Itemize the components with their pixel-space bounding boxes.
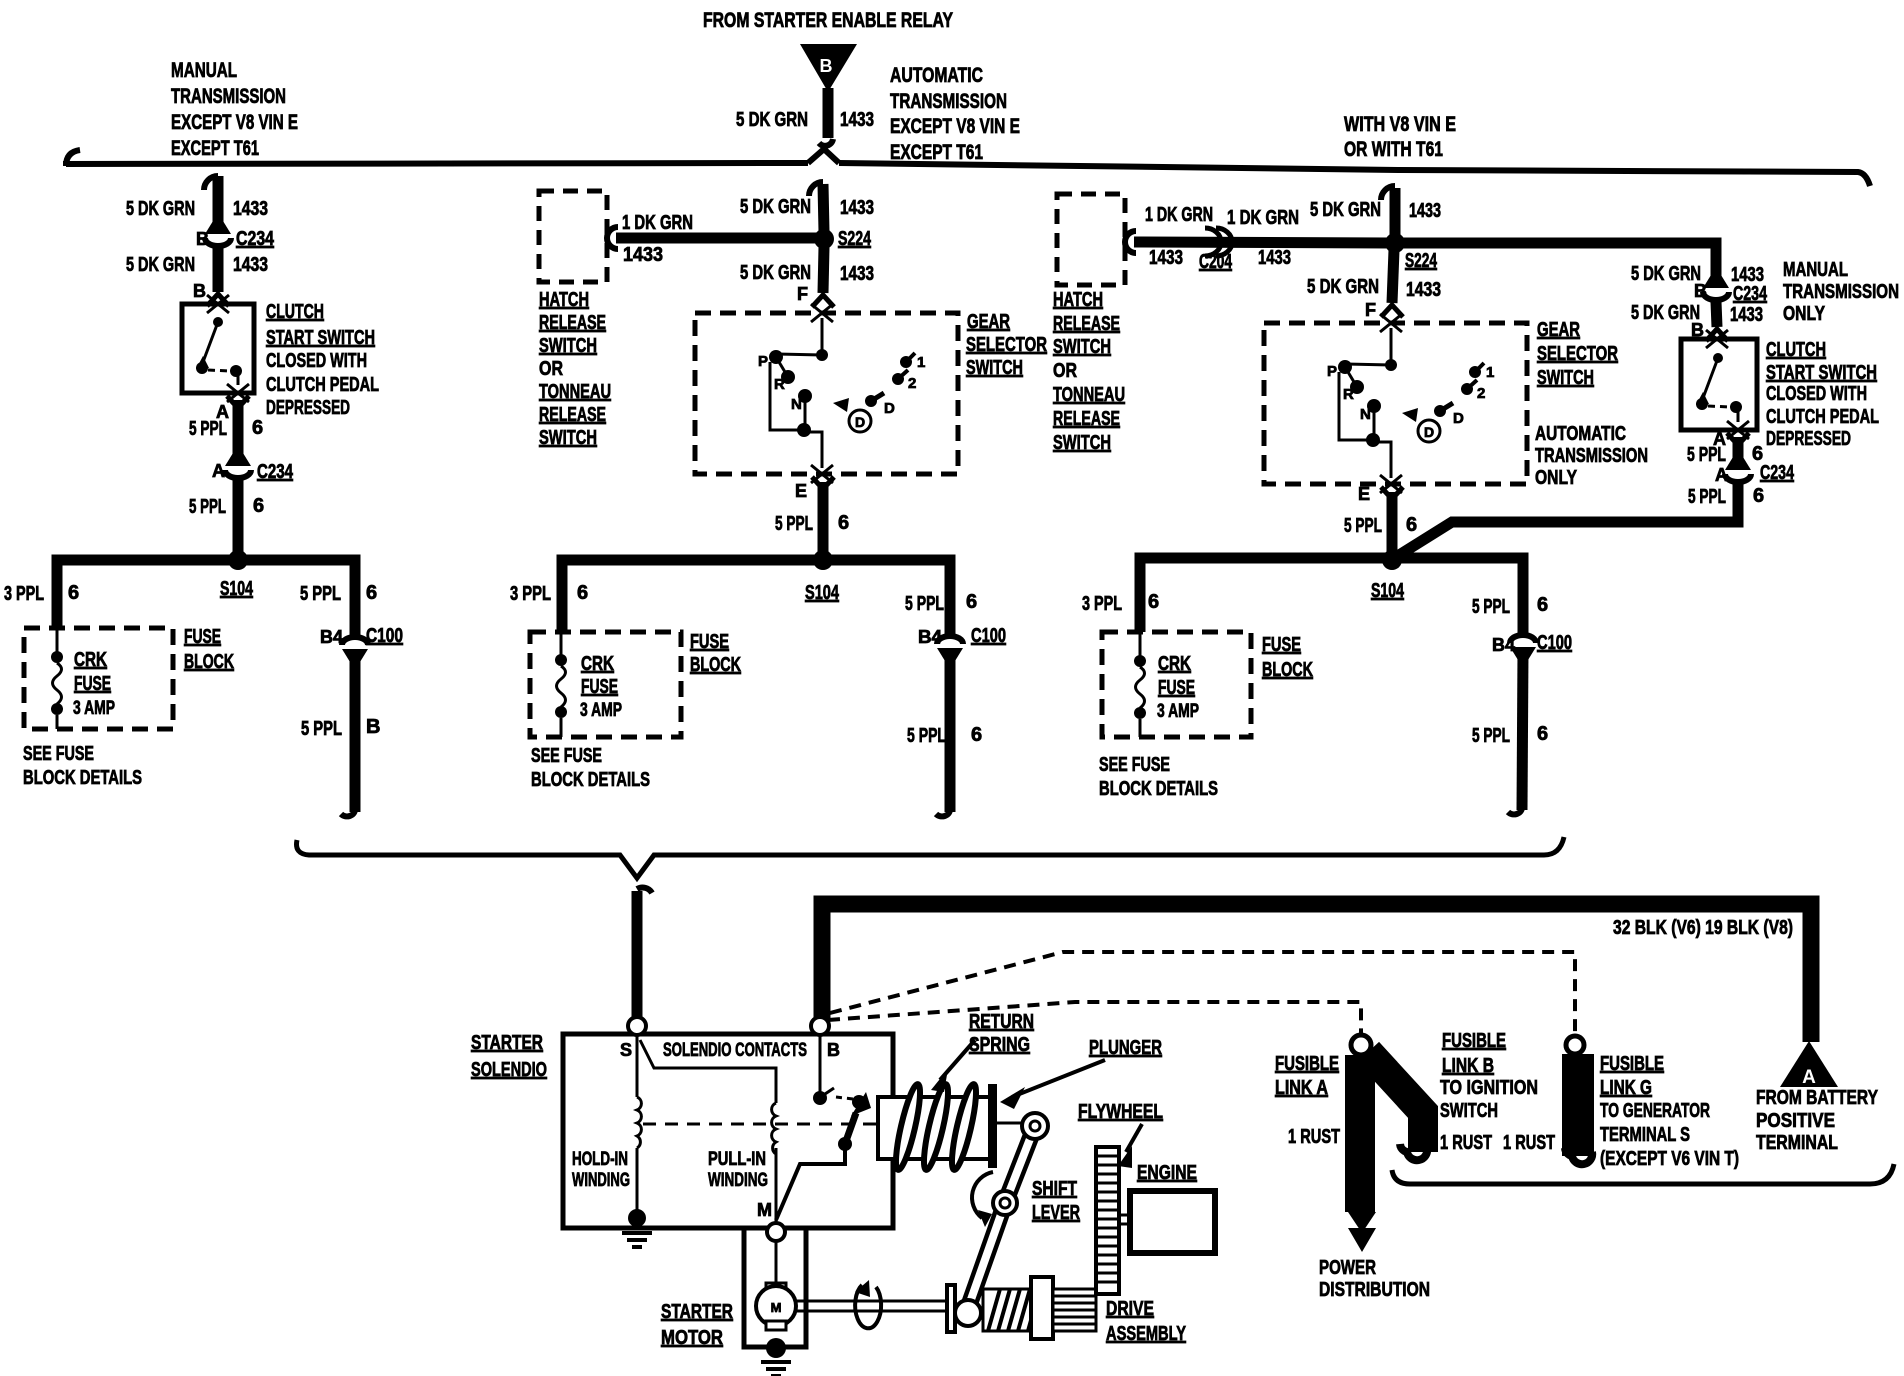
svg-text:5 PPL: 5 PPL — [189, 496, 226, 518]
svg-text:SELECTOR: SELECTOR — [1537, 343, 1618, 365]
svg-text:1433: 1433 — [840, 263, 874, 285]
label drive assembly — [1106, 1298, 1186, 1345]
svg-text:DRIVE: DRIVE — [1106, 1298, 1154, 1320]
label pull-in winding — [708, 1149, 768, 1191]
svg-text:CRK: CRK — [581, 653, 614, 675]
svg-text:FUSIBLE: FUSIBLE — [1600, 1053, 1664, 1075]
svg-text:EXCEPT V8 VIN E: EXCEPT V8 VIN E — [171, 111, 298, 134]
svg-text:D: D — [884, 400, 895, 417]
svg-text:SWITCH: SWITCH — [1440, 1100, 1498, 1122]
dashed lead from B terminal to fusible link G — [830, 952, 1575, 1036]
svg-text:5 PPL: 5 PPL — [300, 583, 341, 605]
rotation arrow at shaft — [855, 1280, 881, 1328]
svg-text:LINK B: LINK B — [1442, 1055, 1494, 1077]
svg-text:D: D — [855, 414, 865, 430]
wire from hatch release switch to splice S224 (branch 3) — [1125, 231, 1390, 253]
svg-text:1433: 1433 — [1406, 279, 1441, 301]
wire label 5 PPL 6 — [907, 724, 982, 747]
svg-text:AUTOMATIC: AUTOMATIC — [1535, 423, 1626, 445]
svg-text:TO GENERATOR: TO GENERATOR — [1600, 1100, 1710, 1122]
svg-text:CLUTCH: CLUTCH — [266, 301, 324, 323]
svg-text:MANUAL: MANUAL — [171, 59, 237, 82]
connector C204 — [1199, 228, 1233, 273]
svg-text:STARTER: STARTER — [471, 1032, 543, 1054]
splice S104 (branch 3) — [1371, 550, 1405, 602]
svg-text:S: S — [620, 1040, 632, 1060]
svg-text:E: E — [1358, 484, 1370, 504]
label flywheel with arrow — [1078, 1101, 1163, 1168]
bottom right brace — [1392, 1164, 1894, 1184]
hatch release switch box (branch 2, dashed) — [539, 191, 607, 282]
splice S104 (branch 1) — [220, 550, 254, 600]
wire label 5 PPL 6 — [775, 512, 849, 535]
svg-text:6: 6 — [577, 582, 588, 604]
splice S224 — [814, 228, 872, 250]
svg-text:M: M — [771, 1300, 782, 1315]
wire from S224 to gear selector switch pin F (branch 3) — [1365, 250, 1403, 320]
starter solenoid box — [563, 1034, 893, 1228]
svg-text:GEAR: GEAR — [967, 311, 1010, 333]
lower gathering brace — [297, 837, 1565, 878]
svg-text:1433: 1433 — [1409, 200, 1441, 222]
svg-text:5 DK GRN: 5 DK GRN — [126, 254, 195, 276]
svg-text:SWITCH: SWITCH — [1537, 367, 1594, 389]
wire label 3 PPL 6 — [4, 582, 79, 605]
wire label 5 DK GRN 1433 — [740, 196, 874, 219]
label gear selector switch (branch 3) — [1537, 319, 1618, 389]
svg-text:F: F — [797, 284, 808, 304]
label see fuse block details — [531, 745, 650, 791]
svg-text:A: A — [1715, 465, 1728, 485]
svg-text:SEE FUSE: SEE FUSE — [531, 745, 602, 767]
svg-text:CRK: CRK — [74, 649, 107, 671]
fuse block 3 (dashed) — [1102, 632, 1251, 737]
svg-text:3 AMP: 3 AMP — [1157, 701, 1199, 722]
wire from bus down to connector C234 (branch 1) — [204, 176, 218, 231]
label fuse block — [184, 626, 234, 673]
svg-text:1433: 1433 — [1149, 247, 1183, 269]
starter motor housing — [744, 1228, 806, 1347]
svg-text:5 PPL: 5 PPL — [775, 513, 813, 535]
svg-text:BLOCK DETAILS: BLOCK DETAILS — [23, 767, 142, 789]
drive assembly clutch (hatched) — [983, 1289, 1033, 1331]
svg-text:FUSE: FUSE — [1158, 677, 1195, 699]
svg-text:A: A — [212, 461, 225, 481]
return spring and plunger body — [878, 1083, 997, 1172]
svg-text:ASSEMBLY: ASSEMBLY — [1106, 1323, 1186, 1345]
bus wire from fuse block to C100 through S104 — [562, 560, 950, 636]
svg-text:6: 6 — [971, 724, 982, 746]
svg-text:FUSE: FUSE — [184, 626, 221, 648]
svg-text:P: P — [758, 353, 768, 370]
svg-text:B4: B4 — [1492, 635, 1515, 655]
wire label 5 PPL 6 (right leg) — [1472, 594, 1548, 618]
wire from switch pin A to connector C234 — [216, 384, 249, 462]
svg-text:SHIFT: SHIFT — [1032, 1178, 1077, 1200]
svg-text:RELEASE: RELEASE — [1053, 408, 1120, 430]
wire label 5 DK GRN 1433 — [126, 254, 268, 276]
shaft end plate — [947, 1285, 955, 1332]
wire from gear selector pin E to splice S104 — [795, 477, 834, 556]
wire from switch pin A to connector C234 (branch 3) — [1713, 421, 1749, 466]
svg-text:C100: C100 — [971, 625, 1006, 647]
wire from lower brace to solenoid S terminal — [637, 888, 652, 1018]
svg-text:1433: 1433 — [1730, 304, 1763, 326]
svg-text:START SWITCH: START SWITCH — [1766, 362, 1877, 384]
svg-text:PULL-IN: PULL-IN — [708, 1149, 766, 1170]
wire label 5 DK GRN 1433 — [1631, 302, 1763, 326]
hold-in winding coil — [637, 1035, 641, 1210]
svg-text:1433: 1433 — [840, 197, 874, 219]
fusible link G symbol — [1565, 1036, 1592, 1164]
wire from C234 to clutch start switch pin B — [1691, 302, 1728, 341]
gear selector switch contacts — [758, 318, 925, 468]
svg-text:FUSIBLE: FUSIBLE — [1442, 1030, 1506, 1052]
label CRK FUSE 3 AMP — [1157, 653, 1199, 722]
svg-text:GEAR: GEAR — [1537, 319, 1580, 341]
svg-text:AUTOMATIC: AUTOMATIC — [890, 64, 983, 87]
svg-text:BLOCK: BLOCK — [184, 651, 234, 673]
svg-text:B: B — [827, 1040, 840, 1060]
off-page connector A (from battery positive terminal) — [1780, 1041, 1838, 1088]
label shift lever — [1032, 1178, 1080, 1224]
svg-text:6: 6 — [252, 417, 263, 439]
svg-text:5 DK GRN: 5 DK GRN — [740, 196, 811, 218]
svg-text:HATCH: HATCH — [539, 289, 589, 311]
svg-text:R: R — [1343, 386, 1354, 403]
battery feed wire from solenoid B terminal to triangle A — [822, 904, 1811, 1042]
connector C100 pin B4 — [320, 625, 403, 662]
CRK fuse 3 amp symbol — [1134, 632, 1146, 737]
svg-text:TRANSMISSION: TRANSMISSION — [890, 90, 1007, 113]
wire label 5 PPL 6 (right leg) — [905, 591, 977, 615]
CRK fuse 3 amp symbol — [555, 632, 567, 737]
drive assembly pinion (splined) — [1053, 1289, 1096, 1331]
svg-text:SEE FUSE: SEE FUSE — [23, 743, 94, 765]
gear selector switch box (branch 3, dashed) — [1264, 314, 1527, 493]
engine block — [1119, 1191, 1215, 1253]
svg-text:ONLY: ONLY — [1783, 303, 1826, 325]
clutch start switch contacts (branch 3) — [1696, 353, 1742, 422]
svg-text:CLOSED WITH: CLOSED WITH — [1766, 383, 1867, 405]
svg-text:CLUTCH PEDAL: CLUTCH PEDAL — [266, 374, 379, 396]
dashed lead from B terminal to fusible link A — [828, 1002, 1361, 1034]
svg-text:1 DK GRN: 1 DK GRN — [622, 212, 693, 234]
svg-text:EXCEPT T61: EXCEPT T61 — [171, 137, 259, 160]
svg-text:OR WITH T61: OR WITH T61 — [1344, 138, 1443, 161]
wire labels 1 DK GRN 1 DK GRN / 1433 1433 — [1145, 204, 1299, 269]
svg-text:ENGINE: ENGINE — [1137, 1162, 1197, 1184]
svg-text:SEE FUSE: SEE FUSE — [1099, 754, 1170, 776]
connector C234 pin A (branch 3) — [1715, 457, 1795, 485]
svg-text:DISTRIBUTION: DISTRIBUTION — [1319, 1279, 1430, 1301]
svg-text:CLUTCH PEDAL: CLUTCH PEDAL — [1766, 406, 1879, 428]
wire label 5 DK GRN 1433 — [736, 109, 874, 131]
svg-text:OR: OR — [539, 358, 563, 380]
svg-text:5 DK GRN: 5 DK GRN — [740, 262, 811, 284]
label fusible link G to generator terminal s (except v6 vin t) — [1600, 1053, 1739, 1170]
wire from connector B down to bus — [819, 88, 833, 146]
svg-text:SELECTOR: SELECTOR — [966, 334, 1047, 356]
svg-text:3 PPL: 3 PPL — [1082, 593, 1122, 615]
svg-text:C204: C204 — [1199, 251, 1233, 273]
label CRK FUSE 3 AMP — [580, 653, 622, 721]
fusible link A symbol — [1348, 1035, 1427, 1252]
CRK fuse 3 amp symbol — [51, 628, 63, 729]
wire label 5 DK GRN 1433 — [1310, 199, 1441, 222]
svg-text:1 DK GRN: 1 DK GRN — [1227, 207, 1299, 229]
svg-text:A: A — [1802, 1067, 1816, 1088]
svg-text:SOLENDIO CONTACTS: SOLENDIO CONTACTS — [663, 1040, 807, 1061]
svg-text:B: B — [196, 229, 209, 249]
svg-text:F: F — [1365, 300, 1376, 320]
svg-text:6: 6 — [1537, 723, 1548, 745]
label clutch start switch closed with clutch pedal depressed — [266, 301, 379, 419]
rotation arrow at shift lever — [972, 1172, 993, 1227]
svg-text:TO IGNITION: TO IGNITION — [1440, 1077, 1538, 1099]
dashed plunger axis — [643, 1123, 876, 1126]
svg-text:TRANSMISSION: TRANSMISSION — [1535, 445, 1648, 467]
svg-text:5 DK GRN: 5 DK GRN — [126, 198, 195, 220]
svg-text:SWITCH: SWITCH — [1053, 336, 1111, 358]
svg-text:1: 1 — [1486, 364, 1494, 381]
svg-text:P: P — [1327, 363, 1337, 380]
wire label 3 PPL 6 — [1082, 591, 1159, 615]
svg-text:RETURN: RETURN — [969, 1011, 1034, 1033]
svg-text:CLUTCH: CLUTCH — [1766, 339, 1826, 361]
connector C234 pin A — [212, 453, 294, 483]
label starter solenoid — [471, 1032, 547, 1081]
svg-text:OR: OR — [1053, 360, 1077, 382]
label with v8 vin e or with t61 — [1344, 113, 1456, 161]
svg-text:RELEASE: RELEASE — [1053, 313, 1120, 335]
solenoid contact from B terminal — [813, 1035, 834, 1105]
svg-text:N: N — [791, 396, 802, 413]
moving contact arm — [776, 1092, 871, 1220]
svg-text:5 PPL: 5 PPL — [905, 593, 944, 615]
svg-text:TERMINAL S: TERMINAL S — [1600, 1124, 1690, 1146]
label power distribution — [1319, 1257, 1430, 1301]
svg-text:1 RUST: 1 RUST — [1503, 1132, 1555, 1154]
svg-text:B4: B4 — [320, 627, 343, 647]
terminal M — [757, 1200, 785, 1241]
top bus brace left segment — [66, 150, 808, 166]
label plunger with arrow — [1000, 1037, 1162, 1109]
wire from C234 down and left to splice S104 (branch 3) — [1396, 484, 1738, 557]
label see fuse block details — [23, 743, 142, 789]
svg-text:BLOCK DETAILS: BLOCK DETAILS — [1099, 778, 1218, 800]
label from battery positive terminal — [1756, 1087, 1879, 1154]
svg-text:RELEASE: RELEASE — [539, 404, 606, 426]
svg-text:BLOCK DETAILS: BLOCK DETAILS — [531, 769, 650, 791]
svg-text:S104: S104 — [1371, 580, 1405, 602]
svg-text:CLOSED WITH: CLOSED WITH — [266, 350, 367, 372]
svg-text:C234: C234 — [1733, 283, 1768, 305]
svg-text:(EXCEPT V6 VIN T): (EXCEPT V6 VIN T) — [1600, 1148, 1739, 1170]
label fuse block — [690, 631, 741, 676]
svg-text:POWER: POWER — [1319, 1257, 1376, 1279]
svg-text:SWITCH: SWITCH — [966, 357, 1023, 379]
svg-text:C234: C234 — [236, 228, 275, 250]
svg-text:C100: C100 — [1537, 632, 1572, 654]
svg-text:EXCEPT T61: EXCEPT T61 — [890, 141, 983, 164]
svg-text:1433: 1433 — [233, 198, 268, 220]
label starter motor — [661, 1301, 733, 1349]
svg-text:6: 6 — [68, 582, 79, 604]
svg-text:1433: 1433 — [233, 254, 268, 276]
wire label 5 PPL 6 — [1687, 443, 1763, 466]
svg-text:B: B — [820, 56, 833, 76]
svg-text:5 DK GRN: 5 DK GRN — [1310, 199, 1381, 221]
svg-text:START SWITCH: START SWITCH — [266, 327, 375, 349]
svg-text:3 AMP: 3 AMP — [73, 698, 115, 719]
svg-text:5 PPL: 5 PPL — [1472, 596, 1510, 618]
svg-text:6: 6 — [838, 512, 849, 534]
label manual transmission only — [1783, 259, 1899, 325]
wire label 3 PPL 6 — [510, 582, 588, 605]
svg-text:TERMINAL: TERMINAL — [1756, 1132, 1838, 1154]
svg-text:TONNEAU: TONNEAU — [1053, 384, 1125, 406]
wire from S224 to gear selector switch pin F — [797, 247, 834, 307]
svg-text:SWITCH: SWITCH — [539, 427, 597, 449]
svg-text:5 PPL: 5 PPL — [907, 725, 946, 747]
gear selector switch contacts (branch 3) — [1327, 328, 1494, 478]
connector C234 pin B — [196, 221, 275, 250]
label return spring with arrow — [931, 1011, 1034, 1092]
label gear selector switch — [966, 311, 1047, 379]
svg-text:C100: C100 — [366, 625, 403, 647]
svg-text:5 DK GRN: 5 DK GRN — [1631, 263, 1701, 285]
ground at starter motor — [761, 1338, 791, 1376]
svg-text:D: D — [1453, 410, 1464, 427]
splice S104 (branch 2) — [805, 550, 840, 604]
label fuse block — [1262, 634, 1313, 681]
svg-text:HOLD-IN: HOLD-IN — [572, 1149, 628, 1170]
gear selector switch box (branch 2, dashed) — [695, 304, 958, 483]
svg-text:5 DK GRN: 5 DK GRN — [1631, 302, 1700, 324]
svg-text:FUSIBLE: FUSIBLE — [1275, 1053, 1339, 1075]
svg-text:SWITCH: SWITCH — [539, 335, 597, 357]
svg-text:6: 6 — [253, 495, 264, 517]
svg-text:DEPRESSED: DEPRESSED — [266, 397, 350, 419]
wire from C100 down to lower brace (branch 3) — [1508, 651, 1523, 814]
svg-text:RELEASE: RELEASE — [539, 312, 606, 334]
svg-text:1 RUST: 1 RUST — [1440, 1132, 1492, 1154]
svg-text:5 PPL: 5 PPL — [1688, 486, 1726, 508]
svg-text:TRANSMISSION: TRANSMISSION — [171, 85, 286, 108]
svg-text:2: 2 — [908, 375, 916, 392]
label CRK FUSE 3 AMP — [73, 649, 115, 719]
wire label 5 PPL B — [301, 716, 380, 740]
wire label 5 DK GRN 1433 — [1631, 263, 1764, 286]
wire label 5 PPL 6 — [1472, 723, 1548, 747]
hatch release switch box (branch 3, dashed) — [1057, 194, 1125, 285]
svg-text:R: R — [774, 376, 785, 393]
svg-text:32 BLK (V6) 19 BLK (V8): 32 BLK (V6) 19 BLK (V8) — [1613, 917, 1793, 939]
label hold-in winding — [572, 1149, 630, 1191]
wire from S224 right to clutch start switch (manual transmission only path) — [1403, 243, 1716, 283]
fuse block 1 (dashed) — [24, 628, 173, 729]
svg-text:1433: 1433 — [623, 244, 663, 266]
wire from bus down to splice S224 (branch 3) — [1381, 186, 1395, 237]
wire label 5 DK GRN 1433 — [1307, 276, 1441, 301]
svg-text:TRANSMISSION: TRANSMISSION — [1783, 281, 1899, 303]
clutch start switch box (branch 1) — [182, 295, 254, 393]
svg-text:3 PPL: 3 PPL — [4, 583, 44, 605]
svg-text:CRK: CRK — [1158, 653, 1191, 675]
off-page connector B (from starter enable relay) — [800, 44, 857, 92]
wire label 5 PPL 6 — [1688, 485, 1764, 508]
wire from C100 down to lower brace — [341, 653, 355, 816]
svg-text:5 PPL: 5 PPL — [1344, 515, 1382, 537]
flywheel ring gear — [1096, 1147, 1119, 1294]
svg-text:SOLENDIO: SOLENDIO — [471, 1059, 547, 1081]
svg-text:S224: S224 — [1405, 250, 1438, 272]
svg-text:3 PPL: 3 PPL — [510, 583, 551, 605]
label hatch release switch or tonneau release switch — [539, 289, 611, 449]
svg-text:B: B — [366, 716, 380, 738]
wire from bus down to splice S224 — [809, 182, 824, 232]
svg-text:S104: S104 — [220, 578, 254, 600]
svg-text:1: 1 — [917, 354, 925, 371]
wire from C234 to clutch start switch, pin B — [193, 248, 229, 306]
label fusible link B to ignition switch — [1440, 1030, 1538, 1122]
svg-text:M: M — [757, 1200, 772, 1220]
wire from M terminal to motor — [775, 1241, 778, 1284]
svg-text:SPRING: SPRING — [969, 1034, 1030, 1056]
connector C100 pin B4 — [918, 625, 1006, 661]
wire label 5 PPL 6 — [189, 495, 264, 518]
svg-text:B: B — [193, 281, 206, 301]
drive assembly collar — [1031, 1277, 1053, 1339]
svg-text:5 PPL: 5 PPL — [1472, 725, 1510, 747]
label automatic transmission only — [1535, 423, 1648, 489]
terminal S — [620, 1017, 646, 1060]
svg-text:B: B — [1694, 281, 1707, 301]
connector C100 pin B4 (branch 3) — [1492, 632, 1572, 660]
svg-text:FUSE: FUSE — [1262, 634, 1301, 656]
svg-text:1433: 1433 — [840, 109, 874, 131]
svg-text:WINDING: WINDING — [708, 1170, 768, 1191]
wire from hatch release switch to splice S224 — [607, 227, 820, 249]
label clutch start switch closed with clutch pedal depressed (branch 3) — [1766, 339, 1879, 450]
shift lever — [968, 1113, 1048, 1308]
label fusible link A / 1 rust — [1275, 1053, 1340, 1148]
svg-text:5 PPL: 5 PPL — [1687, 444, 1726, 466]
svg-text:1 DK GRN: 1 DK GRN — [1145, 204, 1213, 226]
starter motor — [756, 1283, 796, 1330]
svg-text:6: 6 — [966, 591, 977, 613]
wire from C100 down to lower brace — [936, 652, 950, 816]
svg-text:ONLY: ONLY — [1535, 467, 1578, 489]
wire label 5 DK GRN 1433 — [740, 262, 874, 285]
wire label 1 DK GRN / 1433 — [622, 212, 693, 266]
svg-text:LINK G: LINK G — [1600, 1077, 1652, 1099]
top bus brace right segment — [839, 163, 1870, 186]
svg-text:HATCH: HATCH — [1053, 289, 1103, 311]
wire from C234 to splice S104 — [233, 480, 244, 556]
wire from gear selector pin E to splice S104 (branch 3) — [1358, 484, 1403, 554]
svg-text:FUSE: FUSE — [690, 631, 729, 653]
clutch start switch box (branch 3) — [1681, 330, 1757, 430]
svg-text:5 DK GRN: 5 DK GRN — [736, 109, 808, 131]
svg-text:1 RUST: 1 RUST — [1288, 1126, 1340, 1148]
svg-text:N: N — [1360, 406, 1371, 423]
label see fuse block details — [1099, 754, 1218, 800]
svg-text:TONNEAU: TONNEAU — [539, 381, 611, 403]
svg-text:2: 2 — [1477, 385, 1485, 402]
svg-text:FROM STARTER ENABLE RELAY: FROM STARTER ENABLE RELAY — [703, 9, 953, 32]
